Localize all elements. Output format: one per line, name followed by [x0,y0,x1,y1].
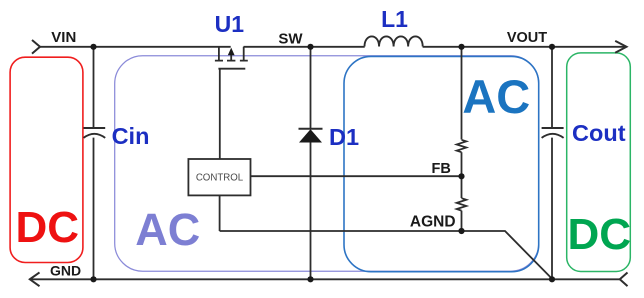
junction VOUT Cout [549,44,555,50]
AC output loop box (blue) [344,56,539,271]
DC input loop box (red) [10,57,83,262]
wire input rail down [93,47,95,128]
svg-text:SW: SW [278,30,303,47]
arrow GND left [30,272,40,286]
capacitor Cout [542,128,564,138]
junction GND Cout [549,276,555,282]
wire AGND rail [220,231,553,279]
svg-text:DC: DC [568,210,632,259]
arrow VOUT output [615,41,626,53]
diode D1 [299,128,323,130]
DC output loop box (green) [567,53,631,272]
junction GND D1 [307,276,313,282]
wire input rail down lower [93,138,95,280]
diode D1 triangle [299,129,322,142]
svg-text:Cin: Cin [112,123,150,149]
junction AGND [458,228,464,234]
svg-text:AC: AC [462,70,530,123]
wire FB node to R2 [461,176,463,198]
junction FB [458,173,464,179]
wire R1 to FB node [461,152,463,176]
arrow VIN input [32,40,40,54]
wire FB from control [251,175,463,177]
svg-text:FB: FB [432,161,451,177]
junction SW [307,44,313,50]
svg-text:D1: D1 [329,124,359,150]
junction VIN [90,44,96,50]
svg-text:VOUT: VOUT [507,30,547,46]
svg-text:L1: L1 [381,6,408,32]
wire VOUT node down [551,47,553,128]
svg-text:VIN: VIN [51,29,76,46]
transistor U1 arrow [228,48,235,56]
wire Cout down [551,138,553,280]
wire feedback node down [461,47,463,140]
wire control to agnd [219,195,221,231]
wire GND bottom rail [30,278,620,280]
control block [188,159,250,195]
inductor L1 [365,36,423,46]
arrow GND right [620,273,628,287]
svg-text:DC: DC [16,203,80,252]
wire SW to VOUT top right [244,46,627,48]
wire R2 to AGND [461,211,463,231]
AC input loop box (purple) [115,56,539,272]
svg-text:AGND: AGND [410,213,456,230]
svg-text:AC: AC [135,204,200,255]
junction GND Cin [90,276,96,282]
svg-text:GND: GND [50,262,81,278]
wire switch node down [310,47,312,129]
capacitor Cin [84,128,106,138]
svg-text:CONTROL: CONTROL [196,173,244,184]
svg-text:Cout: Cout [572,120,626,146]
wire gate [219,69,221,159]
wire diode anode down [310,142,312,279]
transistor U1 switch [215,47,248,69]
resistor R1 upper [457,140,467,152]
junction VOUT divider [458,44,464,50]
wire VIN top left [39,46,231,48]
svg-text:U1: U1 [215,11,245,37]
resistor R2 lower [457,198,467,210]
